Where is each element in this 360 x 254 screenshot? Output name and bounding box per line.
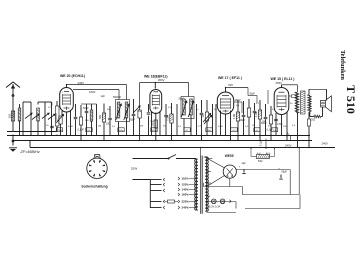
svg-text:4μF: 4μF xyxy=(242,162,247,165)
svg-text:245V: 245V xyxy=(78,81,85,85)
svg-text:240V: 240V xyxy=(322,142,329,146)
svg-text:Sockelschaltung: Sockelschaltung xyxy=(81,184,107,188)
svg-text:202: 202 xyxy=(311,119,316,122)
svg-text:1M: 1M xyxy=(262,121,265,123)
svg-text:140V.: 140V. xyxy=(182,188,189,192)
svg-text:50pF: 50pF xyxy=(250,93,256,95)
svg-text:1μF: 1μF xyxy=(101,95,106,98)
svg-text:200V: 200V xyxy=(158,78,165,82)
svg-text:52W: 52W xyxy=(131,167,137,171)
svg-text:100: 100 xyxy=(7,113,11,118)
svg-text:110V.: 110V. xyxy=(182,177,189,181)
svg-text:220V.: 220V. xyxy=(182,200,189,204)
svg-text:50pF: 50pF xyxy=(83,107,89,110)
svg-text:240V: 240V xyxy=(285,143,292,147)
svg-text:0,3M: 0,3M xyxy=(168,115,170,120)
svg-text:240V.: 240V. xyxy=(182,206,189,210)
svg-text:5000pF: 5000pF xyxy=(113,96,122,99)
svg-text:0,1M: 0,1M xyxy=(256,112,258,117)
svg-text:Telefunken: Telefunken xyxy=(339,50,346,80)
svg-text:WE 17 ( EF11 ): WE 17 ( EF11 ) xyxy=(218,76,242,80)
svg-text:4700: 4700 xyxy=(68,126,74,128)
svg-text:85μF: 85μF xyxy=(282,171,288,174)
svg-text:50Ω: 50Ω xyxy=(258,160,263,163)
svg-text:100Ω: 100Ω xyxy=(56,113,58,119)
svg-text:ZF=468kHz: ZF=468kHz xyxy=(20,150,40,154)
svg-text:WE 15 ( EL11 ): WE 15 ( EL11 ) xyxy=(271,77,295,81)
svg-text:5000: 5000 xyxy=(152,130,158,132)
svg-text:2000: 2000 xyxy=(218,126,224,128)
svg-text:1M: 1M xyxy=(140,126,143,128)
svg-text:100: 100 xyxy=(106,123,111,126)
svg-text:30pF: 30pF xyxy=(130,119,136,122)
svg-text:50pF: 50pF xyxy=(240,119,246,122)
svg-text:WE 20 (ECH11): WE 20 (ECH11) xyxy=(60,74,85,78)
svg-text:0,3M: 0,3M xyxy=(234,114,236,119)
svg-text:160V.: 160V. xyxy=(182,193,189,197)
svg-text:WE55: WE55 xyxy=(225,154,234,158)
svg-text:63V: 63V xyxy=(228,83,233,87)
svg-text:125V.: 125V. xyxy=(182,183,189,187)
svg-text:0,1μF: 0,1μF xyxy=(78,129,85,132)
svg-text:100p: 100p xyxy=(119,130,125,132)
svg-text:T 510: T 510 xyxy=(344,85,358,114)
svg-text:265V: 265V xyxy=(276,81,283,85)
svg-text:470pF: 470pF xyxy=(56,130,63,132)
svg-text:6,3V 0,3A: 6,3V 0,3A xyxy=(209,205,221,209)
svg-text:1M: 1M xyxy=(252,125,255,127)
svg-text:50pF: 50pF xyxy=(179,98,185,101)
svg-text:1M: 1M xyxy=(202,114,205,117)
svg-text:100V: 100V xyxy=(89,90,96,94)
svg-text:2M: 2M xyxy=(98,126,101,128)
